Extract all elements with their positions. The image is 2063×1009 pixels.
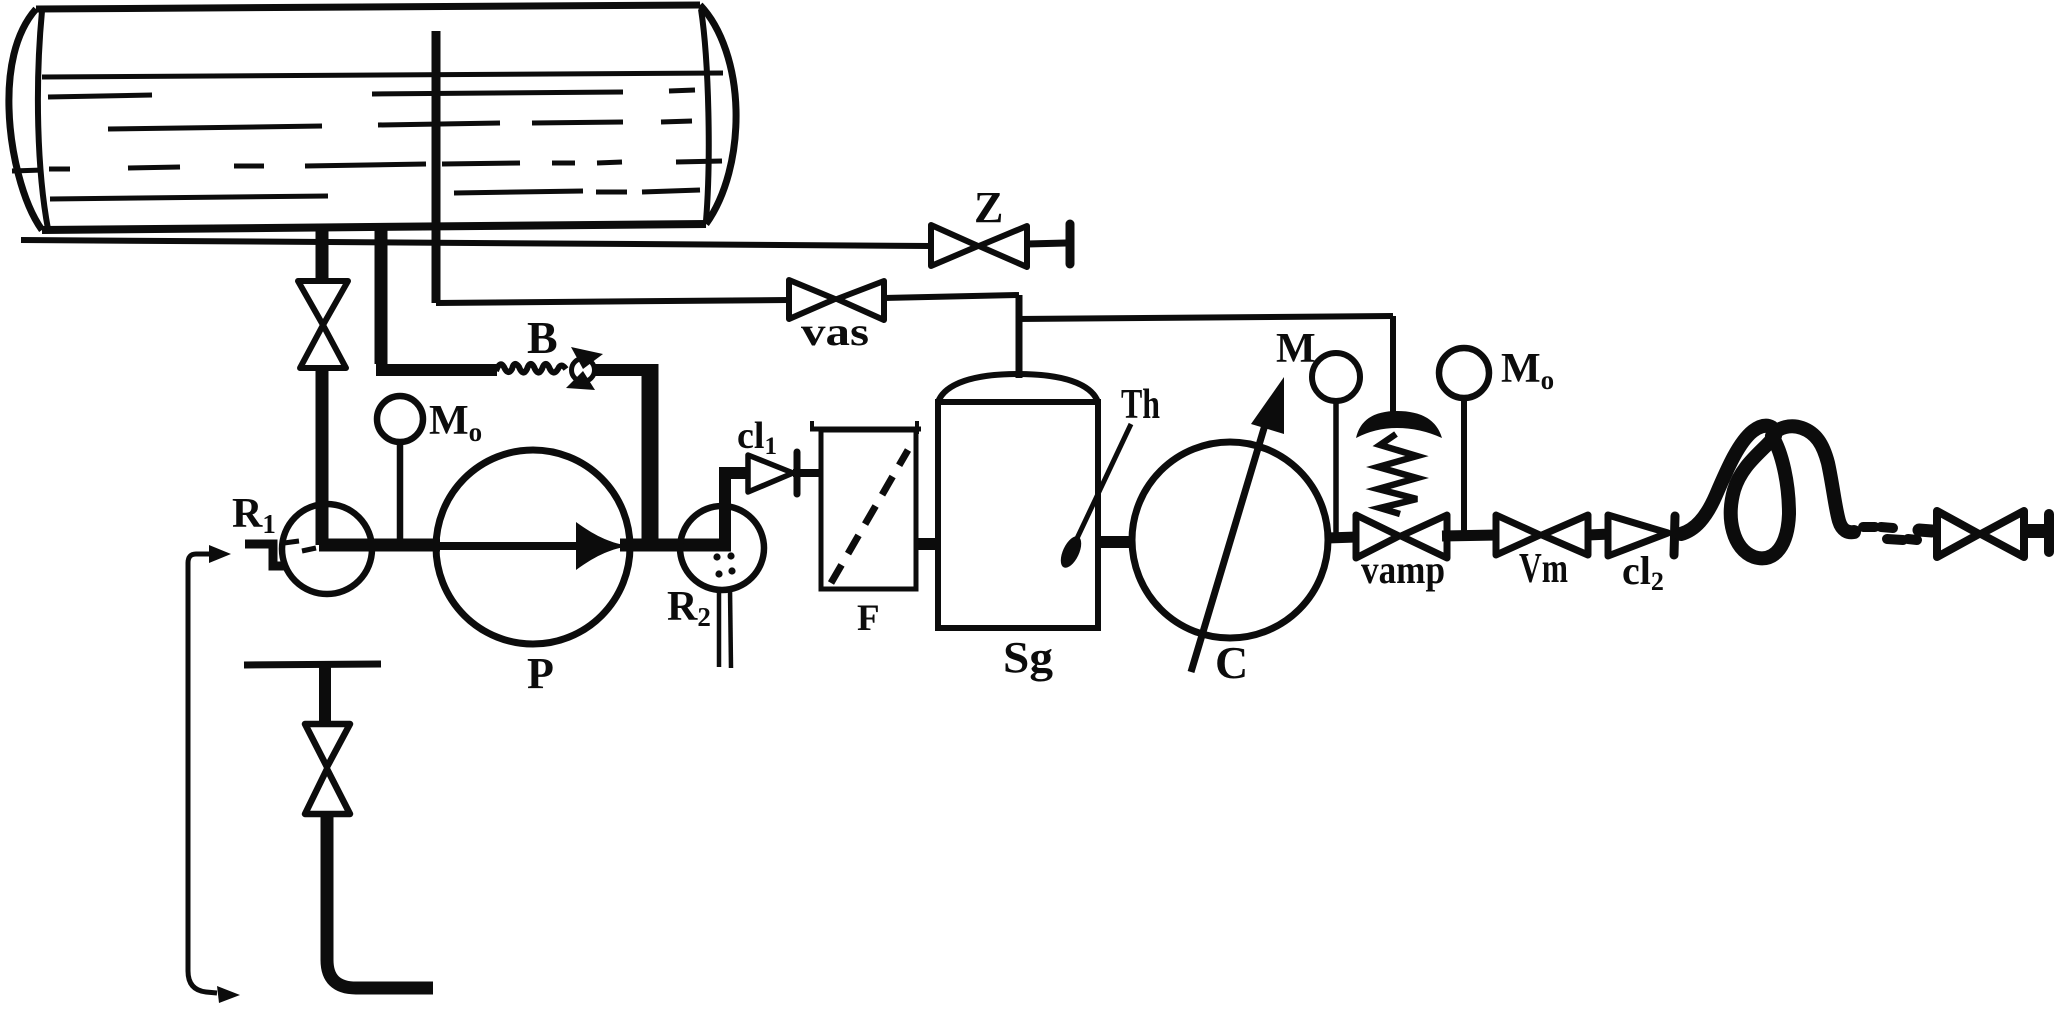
tank liquid level line	[42, 73, 723, 77]
wire C outlet	[1327, 537, 1357, 538]
gauge Mo right	[1439, 348, 1489, 398]
gauge Mo (pump inlet manometer)	[377, 396, 423, 442]
thermometer Th	[1057, 424, 1131, 571]
meter C needle	[1191, 415, 1268, 672]
wire Mo stem	[397, 442, 404, 542]
wire main line R1 to P	[319, 539, 440, 552]
gauge M	[1312, 353, 1360, 401]
flow arrow in pump	[576, 522, 629, 570]
svg-text:M: M	[1276, 326, 1316, 372]
component R1 (filter)	[282, 504, 372, 594]
valve Z	[931, 225, 1027, 267]
check valve B	[566, 347, 603, 390]
fill cap line	[244, 664, 381, 665]
pipe R2 to cl1	[719, 473, 731, 550]
svg-text:F: F	[857, 598, 880, 639]
component R2 (air eliminator)	[680, 506, 764, 590]
filter F	[810, 421, 921, 589]
end stop after Z	[1066, 224, 1075, 264]
tank (storage tank)	[9, 5, 736, 230]
wire Mo right stem	[1461, 398, 1467, 536]
dots inside R2	[713, 552, 735, 577]
fill pipe stem	[319, 666, 331, 726]
meter C	[1132, 442, 1328, 638]
wire Vm to cl2	[1588, 534, 1610, 535]
svg-text:C: C	[1215, 637, 1248, 688]
wire Sg outlet	[1098, 536, 1133, 548]
wire branch to vamp	[1016, 316, 1393, 319]
cl2 end bar	[1674, 516, 1675, 555]
hose nub	[1919, 530, 1932, 531]
wire Z line (vapour line under tank)	[21, 240, 931, 246]
pump P	[436, 450, 630, 644]
vessel Sg (gas separator)	[938, 374, 1098, 628]
pipe through tank (dip pipe)	[432, 31, 441, 303]
relief valve vamp	[1356, 411, 1447, 558]
spring B (bypass valve spring)	[496, 364, 566, 373]
fill pipe to bottom	[327, 812, 433, 988]
wire vas line	[436, 300, 789, 303]
pipe valve to R1	[316, 366, 329, 545]
fill valve	[305, 724, 350, 814]
svg-text:Sg: Sg	[1003, 633, 1053, 682]
valve vas	[789, 280, 884, 320]
hose (flexible delivery hose)	[1681, 426, 1854, 559]
wire M stem	[1333, 401, 1339, 537]
pipe B to downcomer	[595, 364, 650, 376]
svg-text:Th: Th	[1121, 382, 1160, 428]
nozzle outlet fitting	[2028, 524, 2045, 538]
wire vas to Sg	[884, 295, 1019, 298]
pipe downcomer to pump outlet	[642, 364, 659, 545]
svg-text:vas: vas	[801, 309, 869, 354]
svg-text:B: B	[527, 312, 558, 363]
pipe B branch horizontal	[376, 364, 497, 376]
wire Z stub	[1027, 243, 1066, 244]
cl1 fitting cross	[794, 452, 801, 494]
nozzle valve at end	[1937, 511, 2024, 557]
wire F to Sg	[916, 538, 940, 550]
svg-text:Vm: Vm	[1519, 546, 1568, 592]
valve cl2	[1608, 515, 1668, 556]
inlet hook left of R1	[245, 544, 284, 566]
pipe tank outlet left	[316, 228, 329, 282]
svg-text:vamp: vamp	[1361, 547, 1445, 592]
dashed hose continuation	[1863, 527, 1917, 540]
svg-text:P: P	[527, 649, 554, 698]
pipe B branch vertical from tank	[375, 228, 388, 364]
valve below tank	[298, 281, 348, 368]
valve Vm	[1496, 515, 1588, 555]
wire through pump	[438, 542, 580, 550]
valve cl1	[748, 455, 793, 492]
return line with arrows	[188, 545, 240, 1003]
drain lines under R2	[719, 589, 731, 668]
svg-text:Z: Z	[974, 183, 1003, 232]
tank liquid dashes	[12, 90, 722, 199]
wire down to Sg dome	[1016, 295, 1023, 378]
wire pump outlet	[620, 539, 731, 552]
wire down to vamp	[1390, 316, 1396, 420]
wire vamp to Vm	[1442, 535, 1498, 536]
dashes inside R1	[284, 541, 316, 551]
